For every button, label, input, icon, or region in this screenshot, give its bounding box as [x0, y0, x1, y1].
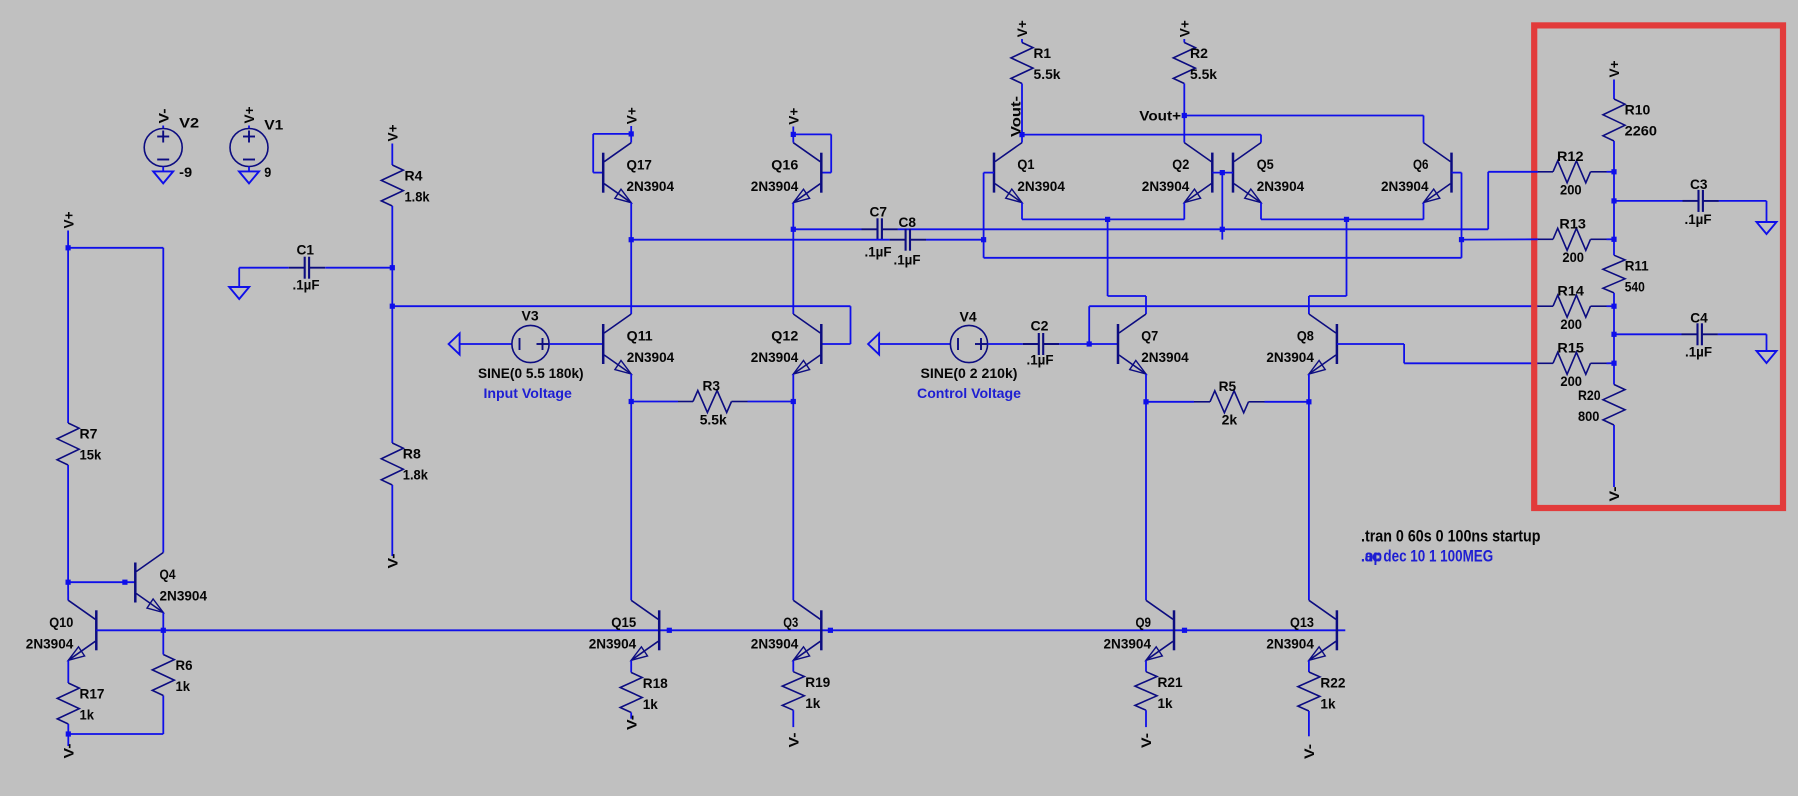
R7 ref label: [80, 426, 98, 442]
resistor R22: [1298, 672, 1320, 711]
junction Vout+ node: [1182, 113, 1187, 118]
resistor R3: [693, 391, 732, 413]
svg-text:2N3904: 2N3904: [751, 349, 799, 365]
svg-text:V-: V-: [1138, 733, 1154, 748]
R2 value label: [1190, 66, 1217, 82]
junction Q15 base: [667, 628, 672, 633]
wire Q8 emitter: [1308, 374, 1310, 402]
wire Q13 emitter: [1308, 660, 1310, 672]
junction R3 right: [791, 399, 796, 404]
svg-text:R14: R14: [1557, 282, 1584, 298]
svg-text:V-: V-: [1301, 744, 1317, 759]
svg-text:R3: R3: [703, 378, 721, 394]
svg-text:Q1: Q1: [1017, 156, 1034, 172]
svg-text:V4: V4: [960, 309, 977, 325]
svg-text:1k: 1k: [1158, 695, 1173, 711]
transistor Q10: [68, 600, 96, 660]
wire Q17 base loop west: [593, 133, 631, 135]
C1 ref label: [297, 242, 315, 258]
svg-text:C1: C1: [297, 242, 315, 258]
junction Q1 base / wire B: [981, 237, 986, 242]
wire Q6 base pin: [1452, 172, 1462, 174]
ground at C3: [1757, 222, 1777, 234]
resistor R5 lead east: [1249, 401, 1265, 403]
transistor Q11: [603, 314, 631, 374]
resistor R14 lead west: [1538, 305, 1553, 307]
svg-text:V+: V+: [1014, 20, 1030, 37]
svg-text:V+: V+: [623, 107, 639, 124]
R13 value label: [1562, 249, 1584, 265]
wire R14 east: [1607, 305, 1615, 307]
wire flag to R2: [1183, 39, 1185, 43]
svg-text:2N3904: 2N3904: [589, 636, 637, 652]
wire Q16 collector stub: [792, 134, 794, 142]
wire Q17 base pin: [593, 172, 603, 174]
V1 ref label: [264, 117, 283, 133]
wire Q4 collector column: [162, 248, 164, 553]
wire V2 bottom stub: [162, 167, 164, 172]
svg-text:2k: 2k: [1222, 412, 1238, 428]
wire V1 bottom stub: [248, 167, 250, 172]
R22 value label: [1320, 696, 1335, 712]
wire V3 to Q11 base: [549, 343, 603, 345]
voltage source V2: [144, 129, 182, 167]
svg-text:Q8: Q8: [1297, 328, 1314, 344]
svg-text:2N3904: 2N3904: [1266, 349, 1314, 365]
svg-text:Q13: Q13: [1290, 614, 1314, 630]
wire C3 node to R13 node: [1613, 201, 1615, 239]
wire R14 node to C4 node: [1613, 306, 1615, 334]
junction Q16 emitter / wire A: [791, 227, 796, 232]
wire Q12 emitter: [792, 374, 794, 402]
R6 value label: [176, 678, 191, 694]
resistor R12: [1553, 161, 1591, 183]
svg-text:Q2: Q2: [1172, 156, 1189, 172]
svg-text:540: 540: [1625, 279, 1645, 295]
wire R14 rail: [1089, 305, 1538, 307]
svg-text:Q5: Q5: [1257, 156, 1274, 172]
wire Vout+ to Q2 collector: [1183, 116, 1185, 143]
wire V4 to C2: [988, 343, 1023, 345]
wire Vout- to Q1 collector: [1021, 135, 1023, 143]
Q2 model label: [1142, 178, 1190, 194]
wire R13 west: [1462, 238, 1539, 240]
wire column to Q3: [792, 402, 794, 601]
wire R20 to flag: [1613, 425, 1615, 487]
net flag V+: [623, 107, 639, 124]
resistor R19: [782, 672, 804, 711]
net flag V-: [1606, 486, 1622, 501]
wire R17 bottom: [67, 724, 69, 734]
wire Q8 base east: [1337, 343, 1404, 345]
svg-text:200: 200: [1562, 249, 1584, 265]
wire R13 east: [1607, 238, 1615, 240]
Q12 model label: [751, 349, 799, 365]
resistor R15 lead west: [1538, 362, 1553, 364]
R12 value label: [1560, 182, 1582, 198]
svg-text:V2: V2: [179, 115, 199, 131]
wire R12 west: [1488, 171, 1538, 173]
svg-text:2N3904: 2N3904: [1141, 349, 1189, 365]
R11 value label: [1625, 279, 1645, 295]
transistor Q9: [1146, 600, 1174, 660]
resistor R17: [57, 683, 79, 724]
junction Q8 tap: [1344, 217, 1349, 222]
R13 ref label: [1559, 216, 1586, 232]
resistor R21: [1135, 672, 1157, 711]
R21 value label: [1158, 695, 1173, 711]
port flag control: [868, 334, 879, 355]
svg-text:5.5k: 5.5k: [1034, 66, 1061, 82]
R22 ref label: [1320, 675, 1345, 691]
svg-text:V+: V+: [241, 107, 257, 124]
R8 ref label: [403, 446, 421, 462]
Q13 ref label: [1290, 614, 1314, 630]
wire Q12 base loop down: [850, 306, 852, 344]
V2 value label: [179, 164, 192, 180]
resistor R7: [57, 423, 79, 465]
wire C1 west: [239, 267, 289, 269]
svg-text:C4: C4: [1690, 310, 1708, 326]
svg-text:Q11: Q11: [627, 328, 653, 344]
svg-text:.1µF: .1µF: [894, 252, 921, 268]
svg-text:15k: 15k: [80, 447, 102, 463]
V3 name label: [484, 385, 573, 401]
wire Q8 collector: [1308, 296, 1310, 314]
wire R7 to node: [67, 465, 69, 582]
wire C3 west: [1614, 200, 1683, 202]
svg-text:1k: 1k: [80, 707, 95, 723]
svg-text:C3: C3: [1690, 176, 1708, 192]
wire R5 west: [1146, 401, 1194, 403]
wire Q17 base loop down: [592, 134, 594, 173]
wire column to Q9: [1145, 402, 1147, 601]
wire Q4 emitter to bus: [162, 613, 164, 631]
R10 ref label: [1625, 102, 1651, 118]
svg-text:Q17: Q17: [627, 156, 653, 172]
net flag V-: [1138, 733, 1154, 748]
junction R12 node: [1611, 169, 1616, 174]
ground at C4: [1757, 351, 1777, 363]
C4 value label: [1685, 344, 1712, 360]
svg-text:1.8k: 1.8k: [403, 467, 428, 483]
transistor Q4: [135, 553, 163, 613]
capacitor C2: [1023, 333, 1059, 355]
wire flag to Q16 node: [792, 127, 794, 135]
wire C4 to ground: [1766, 334, 1768, 350]
resistor R14 lead east: [1591, 305, 1607, 307]
wire flag to R10: [1613, 80, 1615, 100]
wire C1 east: [325, 267, 392, 269]
Q17 model label: [627, 178, 675, 194]
wire C3 east: [1719, 200, 1767, 202]
R1 ref label: [1034, 45, 1052, 61]
wire cross rail east: [984, 257, 1462, 259]
svg-text:R20: R20: [1578, 387, 1601, 403]
C2 value label: [1027, 352, 1054, 368]
svg-text:-9: -9: [179, 164, 192, 180]
wire Q7 base up: [1088, 306, 1090, 344]
wire R12 east: [1607, 171, 1615, 173]
net flag V-: [385, 553, 401, 568]
resistor R2: [1173, 43, 1195, 84]
wire Q6 base vertical: [1461, 173, 1463, 240]
svg-text:.1µF: .1µF: [293, 277, 320, 293]
svg-text:R12: R12: [1557, 148, 1584, 164]
net label Vout-: [1008, 96, 1024, 137]
wire flag to R4: [391, 144, 393, 166]
R2 ref label: [1190, 45, 1208, 61]
svg-text:2N3904: 2N3904: [160, 588, 208, 604]
Q13 model label: [1266, 636, 1314, 652]
R20 value label: [1578, 408, 1600, 424]
wire column A down: [630, 240, 632, 314]
wire Q7 emitter: [1145, 374, 1147, 402]
wire Q7 tap east: [1108, 295, 1146, 297]
wire Q16 base pin: [821, 172, 831, 174]
wire base down to wire A: [1221, 173, 1223, 240]
svg-text:R2: R2: [1190, 45, 1208, 61]
resistor R6: [152, 655, 174, 696]
svg-text:Q10: Q10: [49, 614, 73, 630]
svg-text:V-: V-: [61, 743, 77, 758]
wire A up to R12: [1487, 172, 1489, 230]
R4 value label: [405, 189, 430, 205]
svg-text:R18: R18: [643, 675, 668, 691]
R14 ref label: [1557, 282, 1584, 298]
wire Q1 base down 2: [983, 240, 985, 258]
junction Q3 base: [828, 628, 833, 633]
wire node to Q4 base: [68, 581, 135, 583]
wire Q8 base down: [1403, 344, 1405, 363]
R17 value label: [80, 707, 95, 723]
Q6 model label: [1381, 178, 1429, 194]
svg-text:1k: 1k: [643, 696, 658, 712]
svg-text:Q3: Q3: [783, 614, 798, 630]
V3 sine label: [478, 365, 584, 381]
net flag V-: [155, 108, 171, 123]
wire A east: [898, 228, 1488, 230]
V4 ref label: [960, 309, 977, 325]
svg-text:R8: R8: [403, 446, 421, 462]
junction base / wire A: [1220, 227, 1225, 232]
wire C1 to ground: [238, 268, 240, 287]
R15 value label: [1560, 373, 1582, 389]
svg-text:Q7: Q7: [1141, 328, 1158, 344]
transistor Q5: [1233, 143, 1261, 203]
svg-text:2N3904: 2N3904: [627, 178, 675, 194]
Q1 model label: [1017, 178, 1065, 194]
Q7 model label: [1141, 349, 1189, 365]
junction Q4 emitter / R6 / bus: [161, 628, 166, 633]
wire Vout+ to Q6 collector: [1423, 116, 1425, 143]
wire up to Q6 base node: [1461, 240, 1463, 258]
wire Q6 emitter: [1423, 203, 1425, 220]
R17 ref label: [80, 686, 105, 702]
wire R22 to flag: [1308, 711, 1310, 736]
wire Q17 collector stub: [630, 134, 632, 143]
transistor Q13: [1309, 600, 1337, 660]
net flag V-: [623, 715, 639, 730]
directive ac overlapped: [1361, 548, 1493, 566]
junction Q4 base pin: [122, 580, 127, 585]
svg-text:Q16: Q16: [771, 156, 798, 172]
Q9 ref label: [1136, 614, 1152, 630]
resistor R14: [1553, 295, 1591, 317]
svg-text:C8: C8: [899, 214, 917, 230]
wire R5 east: [1265, 401, 1309, 403]
svg-text:V-: V-: [155, 108, 171, 123]
net flag V-: [786, 732, 802, 747]
svg-text:R21: R21: [1158, 674, 1183, 690]
svg-text:R7: R7: [80, 426, 98, 442]
transistor Q12: [793, 314, 821, 374]
resistor R13: [1553, 228, 1591, 250]
junction R17/R6 bottom: [66, 731, 71, 736]
junction Vout- node: [1019, 132, 1024, 137]
resistor R5: [1210, 391, 1249, 413]
wire V+ rail east: [68, 247, 163, 249]
svg-text:2N3904: 2N3904: [751, 636, 799, 652]
wire Q3 emitter: [792, 660, 794, 671]
wire R1 to Vout-: [1021, 84, 1023, 135]
C2 ref label: [1031, 318, 1049, 334]
R12 ref label: [1557, 148, 1584, 164]
capacitor C8: [890, 229, 926, 251]
R5 value label: [1222, 412, 1238, 428]
transistor Q16: [793, 143, 821, 203]
svg-text:1k: 1k: [805, 695, 820, 711]
svg-text:R22: R22: [1320, 675, 1345, 691]
R14 value label: [1560, 316, 1582, 332]
Q4 ref label: [160, 566, 176, 582]
svg-text:V+: V+: [385, 125, 401, 142]
svg-text:.tran 0 60s 0 100ns startup: .tran 0 60s 0 100ns startup: [1361, 528, 1541, 546]
Q5 model label: [1257, 178, 1305, 194]
svg-text:R19: R19: [805, 674, 830, 690]
svg-text:.1µF: .1µF: [1685, 344, 1712, 360]
Q3 model label: [751, 636, 799, 652]
wire R3 east lead: [748, 401, 794, 403]
wire Q10 emitter to R17: [67, 660, 69, 683]
R7 value label: [80, 447, 102, 463]
wire V1 top stub: [248, 126, 250, 129]
wire Q16 base loop down: [830, 134, 832, 172]
net flag V+: [1177, 20, 1193, 37]
svg-text:Vout+: Vout+: [1139, 108, 1181, 124]
net label Vout+: [1139, 108, 1181, 124]
svg-text:SINE(0 5.5 180k): SINE(0 5.5 180k): [478, 365, 584, 381]
wire Q7 base pin: [1089, 343, 1118, 345]
svg-text:R11: R11: [1625, 258, 1649, 274]
wire V+ rail down: [67, 231, 69, 424]
Q1 ref label: [1017, 156, 1034, 172]
wire flag to R1: [1021, 39, 1023, 43]
wire R10 to node: [1613, 141, 1615, 172]
svg-text:V-: V-: [1606, 486, 1622, 501]
svg-text:R5: R5: [1219, 378, 1237, 394]
net flag V+: [1606, 61, 1622, 78]
transistor Q7: [1118, 314, 1146, 374]
resistor R15 lead east: [1591, 362, 1607, 364]
wire Q16 emitter down: [792, 203, 794, 230]
wire Q5 emitter: [1260, 203, 1262, 220]
svg-text:V+: V+: [1606, 61, 1622, 78]
net flag V+: [60, 212, 76, 229]
wire R18 to flag: [630, 713, 632, 719]
ground at C1: [229, 287, 249, 299]
wire Vout- to Q5 collector: [1260, 135, 1262, 143]
V2 ref label: [179, 115, 199, 131]
wire Q9 emitter: [1145, 660, 1147, 671]
R18 value label: [643, 696, 658, 712]
wire C4 west: [1614, 333, 1682, 335]
wire Q2-Q5 base: [1212, 172, 1233, 174]
svg-text:1k: 1k: [176, 678, 191, 694]
wire Q8 tap west: [1309, 295, 1347, 297]
Q10 model label: [26, 636, 74, 652]
V4 sine label: [921, 365, 1018, 381]
wire C2 to node: [1059, 343, 1089, 345]
wire R15 node to R20: [1613, 363, 1615, 384]
resistor R4: [381, 165, 403, 206]
svg-text:.1µF: .1µF: [1685, 211, 1712, 227]
svg-text:C7: C7: [870, 204, 888, 220]
resistor R8: [381, 443, 403, 485]
svg-text:R1: R1: [1034, 45, 1052, 61]
svg-text:R4: R4: [405, 168, 423, 184]
svg-text:V1: V1: [264, 117, 283, 133]
Q15 model label: [589, 636, 637, 652]
Q5 ref label: [1257, 156, 1274, 172]
R1 value label: [1034, 66, 1061, 82]
svg-text:9: 9: [264, 164, 271, 180]
C4 ref label: [1690, 310, 1708, 326]
wire Q7 collector: [1145, 296, 1147, 314]
resistor R10: [1603, 99, 1625, 141]
wire port to V4: [879, 343, 950, 345]
wire Q1-Q2 emitter rail: [1022, 218, 1184, 220]
R4 ref label: [405, 168, 423, 184]
svg-text:V+: V+: [1177, 20, 1193, 37]
svg-text:V+: V+: [786, 108, 802, 125]
directive tran: [1361, 528, 1541, 546]
R19 value label: [805, 695, 820, 711]
svg-text:2N3904: 2N3904: [1381, 178, 1429, 194]
transistor Q6: [1424, 143, 1452, 203]
Q6 ref label: [1413, 156, 1429, 172]
junction V+ rail corner: [66, 245, 71, 250]
svg-text:2N3904: 2N3904: [1257, 178, 1305, 194]
wire Q15 emitter: [630, 660, 632, 672]
svg-text:C2: C2: [1031, 318, 1049, 334]
resistor R13 lead east: [1591, 238, 1607, 240]
svg-text:SINE(0 2 210k): SINE(0 2 210k): [921, 365, 1018, 381]
net flag V+: [1014, 20, 1030, 37]
svg-text:R13: R13: [1559, 216, 1586, 232]
svg-text:2260: 2260: [1625, 123, 1658, 139]
wire Q1 base down: [983, 173, 985, 240]
transistor Q15: [631, 600, 659, 660]
resistor R15: [1553, 352, 1591, 374]
V4 name label: [917, 385, 1021, 401]
svg-text:Control Voltage: Control Voltage: [917, 385, 1021, 401]
R19 ref label: [805, 674, 830, 690]
svg-text:.1µF: .1µF: [865, 244, 892, 260]
svg-text:V3: V3: [522, 308, 539, 324]
Q4 model label: [160, 588, 208, 604]
wire Q12 base loop west: [821, 343, 850, 345]
